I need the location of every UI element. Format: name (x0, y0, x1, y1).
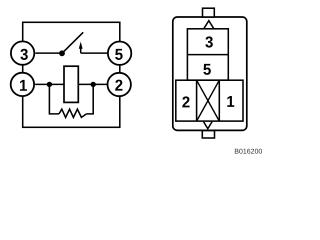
terminal circle 5 (108, 42, 131, 65)
pin cavity column 3/5 (187, 29, 228, 80)
resistor branch: right drop wire (87, 84, 94, 114)
bottom mounting tab (202, 131, 214, 138)
junction dot: switch pivot (59, 50, 65, 56)
switch blade (open contact arm) (62, 32, 83, 53)
wire: coil to terminal 2 (78, 83, 107, 85)
terminal circle 3 (11, 41, 34, 64)
junction dot right (91, 82, 96, 87)
terminal circle 1 (11, 73, 34, 96)
keyway X mark (197, 80, 220, 121)
resistor branch: left drop wire (49, 84, 59, 114)
bottom pin row outline (176, 80, 243, 121)
keyway divider left (196, 80, 198, 121)
resistor zigzag (59, 109, 87, 117)
relay case outline (left schematic box) (23, 22, 120, 127)
keyway divider right (218, 80, 220, 121)
pin cavity 2 label (182, 96, 189, 107)
figure number label (235, 149, 262, 154)
top latch (up arrow) (204, 21, 214, 29)
wire: fixed contact to terminal 5 (81, 52, 107, 54)
top mounting tab (203, 8, 215, 17)
bottom latch (down arrow) (203, 122, 212, 129)
junction dot left (47, 82, 52, 87)
connector body (right pin layout) (173, 17, 247, 130)
wire: terminal 1 to coil (35, 83, 64, 85)
fixed contact arrow (79, 42, 83, 49)
relay coil (rectangle) (64, 66, 78, 102)
pin cavity 1 label (227, 96, 234, 107)
terminal circle 2 (108, 73, 131, 96)
wire: terminal 3 to switch pivot (35, 52, 62, 54)
